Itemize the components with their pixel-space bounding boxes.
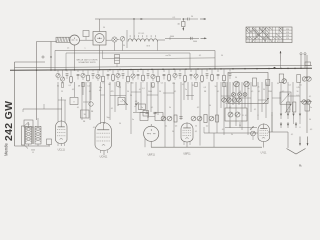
svg-text:0,1: 0,1 — [254, 109, 256, 111]
svg-text:2n: 2n — [141, 107, 143, 109]
wire — [29, 118, 39, 127]
svg-text:0,3: 0,3 — [310, 129, 312, 131]
svg-text:50: 50 — [191, 16, 193, 18]
rectifier block frame with capacitors — [228, 73, 268, 104]
svg-text:5n: 5n — [152, 86, 154, 88]
IF transformer boxes — [140, 110, 163, 121]
svg-text:50: 50 — [297, 91, 299, 93]
wire secondary bus — [15, 66, 313, 68]
svg-text:0,1: 0,1 — [309, 96, 311, 98]
svg-text:50: 50 — [221, 55, 223, 57]
svg-text:5n: 5n — [132, 119, 134, 121]
svg-text:0,5: 0,5 — [161, 83, 163, 85]
output transformer T1 — [26, 127, 42, 145]
tube V1 output — [56, 121, 68, 152]
electrolytic block frame — [225, 108, 247, 121]
capacitor C5 plates — [191, 37, 198, 43]
svg-text:0,1: 0,1 — [89, 91, 91, 93]
svg-text:0,1: 0,1 — [245, 115, 247, 117]
wire tube U1 to bus — [74, 45, 76, 70]
svg-text:50: 50 — [130, 95, 132, 97]
svg-text:1,5: 1,5 — [67, 48, 69, 50]
wire v left end y50 — [54, 51, 56, 71]
tube V5 rectifier — [258, 124, 270, 155]
svg-text:50: 50 — [309, 119, 311, 121]
arrow down from R2 — [182, 27, 184, 31]
svg-text:Mende: Mende — [4, 143, 9, 156]
component value labels row — [57, 83, 302, 90]
right edge vertical wire — [306, 55, 308, 133]
mains cord wires — [300, 53, 306, 69]
svg-text:0,3: 0,3 — [135, 101, 137, 103]
wire — [170, 18, 181, 20]
svg-text:10n: 10n — [172, 83, 175, 85]
svg-text:0,1: 0,1 — [174, 91, 176, 93]
svg-text:0,3: 0,3 — [175, 126, 177, 128]
resistor R1 hatched box — [56, 37, 70, 42]
svg-text:0,1: 0,1 — [93, 127, 95, 129]
capacitor C4 label — [170, 36, 174, 38]
svg-text:0,15: 0,15 — [296, 87, 299, 89]
svg-text:8: 8 — [300, 127, 301, 129]
wire U2 top to upper line — [99, 19, 101, 32]
svg-text:25: 25 — [192, 85, 194, 87]
wire h bus y53 — [66, 52, 190, 54]
wire junction — [133, 18, 134, 19]
svg-text:50: 50 — [195, 126, 197, 128]
arrow down to chassis 2 — [307, 137, 309, 146]
variable arrow over potentiometer — [263, 98, 269, 104]
wire h bus y50 — [55, 50, 215, 52]
svg-text:17,5: 17,5 — [286, 38, 289, 40]
mains arrow up — [280, 51, 282, 69]
wire to chassis — [287, 132, 289, 148]
tube V4 detector — [181, 123, 193, 156]
svg-text:0,5: 0,5 — [251, 91, 253, 93]
svg-text:50: 50 — [263, 89, 265, 91]
svg-text:nur TA: nur TA — [166, 54, 172, 57]
svg-text:20: 20 — [147, 117, 149, 119]
wires into tube V1 top — [58, 95, 65, 123]
svg-text:1n: 1n — [225, 103, 227, 105]
svg-text:0,5: 0,5 — [229, 107, 231, 109]
svg-text:0,1: 0,1 — [151, 107, 153, 109]
svg-text:0,1: 0,1 — [217, 91, 219, 93]
svg-text:℞: ℞ — [299, 164, 302, 168]
svg-text:5000: 5000 — [148, 91, 152, 93]
wire — [106, 39, 120, 42]
wire top-left horizontal — [15, 61, 46, 63]
svg-text:0,2: 0,2 — [282, 91, 284, 93]
wire U2 shield to bus — [99, 45, 101, 70]
svg-text:17,5: 17,5 — [286, 29, 289, 31]
wire antenna loop right vertical — [50, 42, 52, 71]
wire top of transformer run — [23, 104, 62, 112]
svg-text:8: 8 — [258, 115, 259, 117]
coupling capacitor — [47, 139, 52, 146]
svg-text:UBF11: UBF11 — [183, 153, 191, 156]
svg-text:50: 50 — [209, 105, 211, 107]
svg-text:0,1: 0,1 — [195, 131, 197, 133]
svg-text:0,1: 0,1 — [199, 55, 201, 57]
capacitor bank circles — [222, 98, 241, 102]
tube U2 in shield box — [93, 32, 106, 46]
svg-text:470: 470 — [111, 91, 114, 93]
svg-text:0,1: 0,1 — [139, 89, 141, 91]
arrow to pickup right — [201, 37, 207, 39]
node junction on antenna loop — [50, 56, 51, 57]
svg-text:a: a — [85, 48, 86, 50]
bus junction dots — [36, 67, 308, 70]
long vertical wires to lower stage — [58, 82, 300, 147]
svg-text:0,1: 0,1 — [289, 85, 291, 87]
heater connector wire — [225, 122, 257, 128]
miscellaneous value labels — [61, 27, 312, 136]
svg-text:25: 25 — [61, 91, 63, 93]
svg-text:0,3: 0,3 — [72, 89, 74, 91]
tube V3 top view circle — [144, 124, 159, 157]
svg-text:17,5: 17,5 — [286, 32, 289, 34]
svg-text:5000: 5000 — [193, 41, 197, 43]
tube V2 pins — [101, 150, 108, 155]
trimmer capacitor — [120, 37, 125, 42]
svg-text:0,5: 0,5 — [299, 85, 301, 87]
tube V5 pins — [263, 142, 265, 148]
wire cluster vertical — [169, 37, 171, 40]
grid resistor box — [24, 120, 33, 127]
wire lamp to bus — [114, 42, 116, 50]
arrow down to chassis — [299, 137, 301, 146]
wire antenna top horizontal — [37, 41, 57, 43]
wire speaker rail — [15, 145, 51, 147]
svg-text:0,1: 0,1 — [291, 134, 293, 136]
svg-text:2n: 2n — [185, 89, 187, 91]
svg-text:UCL11: UCL11 — [58, 149, 66, 152]
wire main supply bus — [10, 68, 312, 70]
svg-text:0,1: 0,1 — [258, 91, 260, 93]
wire — [133, 111, 145, 113]
wire — [268, 112, 288, 132]
tube V1 pins — [58, 143, 65, 146]
wire cathode rail — [151, 146, 262, 148]
mid level components IF stage — [70, 95, 157, 118]
wire heater line upper — [204, 132, 258, 134]
padding capacitor box — [83, 31, 89, 41]
current symbol — [299, 164, 302, 168]
wire — [69, 39, 70, 41]
svg-text:6,8: 6,8 — [99, 90, 101, 92]
svg-text:17,5: 17,5 — [286, 35, 289, 37]
svg-text:SCHALTER 1847/9: SCHALTER 1847/9 — [78, 61, 96, 64]
brand Mende — [4, 143, 9, 156]
svg-text:242 GW: 242 GW — [3, 101, 15, 141]
lamp X circle — [112, 37, 117, 42]
svg-text:50: 50 — [103, 27, 105, 29]
svg-text:5000: 5000 — [31, 150, 35, 152]
switch annotation text block — [76, 59, 98, 64]
chassis ground symbol — [287, 149, 306, 155]
svg-text:50: 50 — [172, 131, 174, 133]
svg-text:0,1: 0,1 — [120, 101, 122, 103]
smoothing capacitor near rectifier — [251, 131, 256, 140]
svg-text:50: 50 — [159, 91, 161, 93]
svg-text:UCH11: UCH11 — [100, 156, 108, 159]
svg-text:0,2: 0,2 — [197, 107, 199, 109]
svg-text:50: 50 — [235, 77, 237, 79]
svg-text:50: 50 — [84, 114, 86, 116]
svg-text:10: 10 — [239, 91, 241, 93]
wire v left end y53 — [65, 53, 67, 70]
coil winding table — [246, 27, 292, 43]
node — [183, 18, 185, 20]
svg-text:2n: 2n — [310, 107, 312, 109]
svg-text:6: 6 — [144, 110, 145, 112]
svg-text:I II III: I II III — [146, 46, 150, 48]
wire v from y53 to main bus — [189, 53, 191, 69]
tube V4 pins — [184, 142, 190, 148]
AF coupling components row — [161, 115, 218, 128]
svg-text:0,1: 0,1 — [165, 126, 167, 128]
svg-text:8: 8 — [243, 115, 244, 117]
diode arrows heater chain — [280, 112, 301, 128]
svg-text:50: 50 — [127, 91, 129, 93]
inductor L1 tapped coil — [127, 30, 157, 48]
wire h bus y58 — [103, 51, 216, 59]
wire v from y50 to main bus — [214, 51, 216, 70]
schematic frame wire left edge vertical — [14, 62, 16, 146]
svg-text:8: 8 — [74, 101, 75, 103]
capacitor C2 label — [173, 17, 176, 19]
svg-text:0,1: 0,1 — [87, 85, 89, 87]
tube V2 mixer — [95, 122, 112, 159]
svg-text:0,1: 0,1 — [77, 107, 79, 109]
power section dropper resistors — [266, 62, 312, 113]
component row under bus (resistors capacitors electrolytics) — [56, 69, 232, 87]
svg-text:0,1: 0,1 — [142, 88, 144, 90]
wire antenna loop left vertical — [36, 42, 38, 121]
svg-text:UBF11: UBF11 — [148, 154, 156, 157]
wire coil to right — [157, 40, 165, 51]
svg-text:0,2: 0,2 — [250, 129, 252, 131]
svg-text:30: 30 — [123, 45, 125, 47]
arrow at rectifier — [250, 127, 254, 130]
svg-text:5000: 5000 — [170, 36, 174, 38]
arrow to gramophone right — [200, 18, 206, 20]
svg-text:1 2 3 4 5: 1 2 3 4 5 — [138, 33, 144, 35]
svg-text:0,2: 0,2 — [206, 126, 208, 128]
wire — [294, 119, 301, 124]
svg-text:50: 50 — [215, 86, 217, 88]
wire step connector — [204, 127, 214, 147]
loudspeaker cone — [22, 123, 29, 149]
capacitor small on left vertical — [42, 56, 44, 58]
svg-text:30: 30 — [277, 83, 279, 85]
svg-text:0,5: 0,5 — [27, 124, 29, 126]
wire coil tap up — [133, 19, 135, 39]
wire — [80, 39, 94, 41]
wire trimmer to bus — [122, 41, 124, 50]
svg-text:6: 6 — [272, 115, 273, 117]
arrow mid dial line — [141, 18, 143, 20]
svg-text:2500: 2500 — [268, 91, 272, 93]
svg-text:0,3: 0,3 — [204, 87, 206, 89]
svg-text:UY11: UY11 — [261, 152, 267, 155]
capacitor C3 plates — [183, 16, 198, 20]
IF transformer box — [115, 55, 120, 68]
svg-text:50: 50 — [119, 123, 121, 125]
svg-text:50p: 50p — [107, 117, 110, 119]
svg-text:5k: 5k — [169, 107, 171, 109]
interconnect wires — [58, 92, 300, 102]
svg-text:0,1: 0,1 — [69, 85, 71, 87]
wire lower dial line — [165, 37, 199, 39]
transformer label — [31, 150, 35, 155]
tube U1 top view circle — [70, 35, 80, 45]
svg-text:0,1: 0,1 — [222, 129, 224, 131]
wire — [29, 144, 39, 146]
svg-text:5k: 5k — [231, 134, 233, 136]
svg-text:50: 50 — [239, 125, 241, 127]
svg-text:0,1: 0,1 — [111, 108, 113, 110]
resistor R2 in dropper — [177, 19, 185, 27]
svg-text:30: 30 — [117, 105, 119, 107]
model designation 242 GW — [3, 101, 15, 141]
wire upper dial line — [95, 18, 170, 20]
